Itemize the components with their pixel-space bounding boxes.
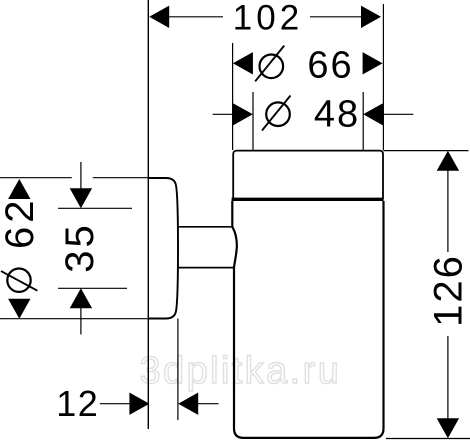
svg-text:12: 12 [56,383,99,424]
svg-text:35: 35 [58,222,102,273]
svg-text:66: 66 [307,45,353,87]
svg-text:102: 102 [233,0,303,38]
svg-text:62: 62 [0,197,42,250]
svg-text:126: 126 [427,254,470,327]
svg-text:3dplitka.ru: 3dplitka.ru [140,350,342,392]
svg-text:48: 48 [314,94,360,136]
